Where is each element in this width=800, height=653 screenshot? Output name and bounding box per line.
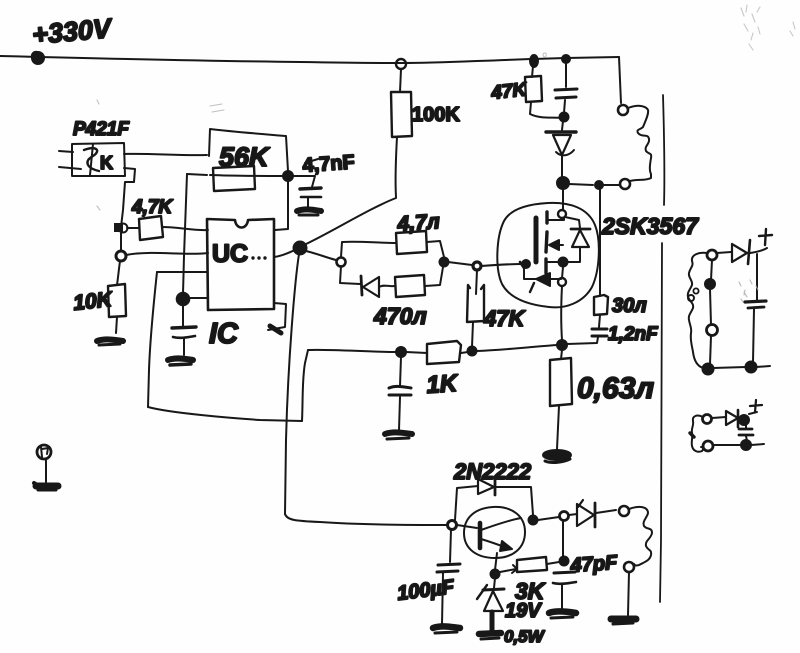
wire node 1K-left down to C5 <box>400 357 401 386</box>
diode D2 cathode bar <box>361 276 362 295</box>
wire node S to D5 <box>569 514 577 515</box>
svg-text:UC: UC <box>212 240 248 268</box>
diode D8 cathode bar <box>737 410 740 427</box>
wire D5 to T1 aux terminal <box>596 510 616 513</box>
svg-text:1K: 1K <box>426 370 460 399</box>
Q1 source lead <box>547 261 559 263</box>
transistor Q2 2N2222 circle <box>464 507 525 558</box>
node M ring junction <box>473 262 481 270</box>
wire node R to R13 <box>500 565 517 573</box>
Q2 emitter lead with arrow <box>481 539 512 551</box>
ground under C6 <box>549 611 576 618</box>
wire 56K big box outline <box>209 129 288 171</box>
wire C8 down to node U <box>753 309 754 362</box>
T2 terminal top circle <box>707 250 717 260</box>
Q1 drain lead <box>548 218 564 220</box>
T1 aux top terminal circle <box>619 506 629 516</box>
label 2N2222 <box>453 459 532 484</box>
T1 primary winding zigzag <box>628 106 651 181</box>
T1 primary top terminal circle <box>618 105 628 115</box>
node snubber dot <box>595 181 603 189</box>
diode D3 top bar <box>546 130 576 133</box>
label 47pF <box>569 552 619 577</box>
wire base node to Q2 base <box>457 525 477 528</box>
label 100uF <box>396 576 456 605</box>
wire node B to UC pin <box>126 253 208 255</box>
ground under C2 <box>168 358 193 365</box>
svg-text:47pF: 47pF <box>569 552 619 577</box>
label 1,2nF <box>608 324 659 345</box>
wire D4 to collector node <box>496 487 533 515</box>
wire T1 aux bottom to ground <box>628 572 629 615</box>
T3 terminal bottom circle <box>703 441 713 451</box>
wire R9 bottom hook to node P <box>530 102 562 118</box>
wire Q2 emitter down to node R <box>495 553 497 570</box>
label 0,5W <box>504 627 546 646</box>
diode D5 cathode bar <box>594 503 597 527</box>
wire R11 to ground <box>557 406 559 449</box>
label P421F <box>73 119 130 140</box>
wire node P to D3 <box>562 121 563 130</box>
T1 primary bottom terminal circle <box>620 179 630 189</box>
label 100K <box>412 104 460 126</box>
capacitor C4 1.2nF plates <box>592 329 607 336</box>
wire D6 to ground thick <box>490 612 495 631</box>
optocoupler internal LED scribble <box>84 144 113 175</box>
wire top rail corner down to T1 <box>619 57 621 103</box>
svg-text:100µF: 100µF <box>396 576 456 605</box>
ground under D6 <box>479 633 501 639</box>
wire node B down to R4 <box>117 261 120 285</box>
resistor R3 4.7K box <box>139 216 163 240</box>
wire node Q to R11 <box>561 350 562 359</box>
label 4,7 ohm <box>396 210 441 236</box>
node N junction dot <box>468 347 477 356</box>
diode D3 triangle down <box>553 135 574 155</box>
resistor R13 3K box <box>517 557 547 572</box>
wire T3 top to D8 <box>712 417 726 418</box>
label 10K <box>72 288 115 315</box>
diode D4 cathode bar <box>494 480 497 495</box>
wire tap circle down to bottom dot <box>710 336 711 364</box>
label 30 ohm <box>612 295 647 317</box>
svg-text:2N2222: 2N2222 <box>453 459 532 484</box>
svg-text:10K: 10K <box>72 288 115 315</box>
Q1 gate tie lower arrow <box>520 262 561 292</box>
wire node U stub right <box>756 366 770 367</box>
node P junction dot <box>560 113 569 122</box>
diode D7 triangle <box>732 244 747 262</box>
wire R3 to UC pin <box>163 227 208 230</box>
label 56K <box>219 142 271 172</box>
wire snubber vertical from node <box>599 189 601 296</box>
node U junction dot <box>746 362 757 373</box>
node T2 bottom dot <box>703 364 714 375</box>
resistor R10 30ohm box <box>594 295 608 315</box>
wire node J diagonal up to 100K <box>304 198 396 245</box>
node open circle on top rail <box>396 59 406 69</box>
svg-text:2SK3567: 2SK3567 <box>601 213 699 239</box>
wire bottom feedback run to vertical G <box>148 407 302 421</box>
Q1 source terminal circle <box>558 267 566 286</box>
resistor R12 1K box <box>427 341 461 364</box>
wire UC pin to corner F <box>157 271 207 273</box>
resistor R7 470ohm box <box>395 275 425 297</box>
wire node C to C1 <box>293 176 315 187</box>
svg-text:4,7nF: 4,7nF <box>302 151 356 177</box>
wire C2 to ground <box>183 339 185 355</box>
wire UC output pin to node J <box>274 250 295 257</box>
T3 winding hook scribble <box>690 416 703 452</box>
ground under R11 blob <box>543 450 571 462</box>
wire tap dot to tap circle <box>710 289 711 325</box>
wire collector node to node S <box>538 517 559 520</box>
node base open circle <box>448 521 457 530</box>
wire 100K bottom lead <box>396 137 397 197</box>
wire drain terminal up to drain node <box>562 189 564 210</box>
Q2 base bar <box>478 523 483 548</box>
capacitor C3 plates <box>555 89 577 98</box>
Q1 body arrow <box>549 240 563 250</box>
wire base node up to D4 <box>455 486 478 520</box>
node gate junction dot <box>522 260 530 268</box>
capacitor C7 100uF plates <box>437 564 460 572</box>
wire R10 to C4 <box>599 315 600 327</box>
capacitor C5 plates <box>389 386 411 395</box>
capacitor C8 plates <box>745 301 766 308</box>
Q1 body diode branch top <box>565 217 580 228</box>
optocoupler U2 P421F box <box>72 143 125 176</box>
label 3K <box>515 578 546 604</box>
ground under C7 <box>433 626 460 633</box>
wire R12 to node N <box>461 352 468 353</box>
Q1 gate bar <box>534 218 539 262</box>
Q2 collector lead <box>481 518 521 530</box>
wire R8 down to node N <box>472 322 473 347</box>
zener D6 triangle <box>484 591 503 611</box>
wire drain node to winding node <box>569 184 593 185</box>
wire node C down to UC top pin <box>275 181 288 230</box>
wire D7 to C8 <box>750 248 767 300</box>
node source dot <box>559 258 568 267</box>
label 470 ohm <box>373 303 427 329</box>
separator line lower segment <box>660 243 662 602</box>
wire T2 top circle to tap dot <box>711 260 712 280</box>
svg-text:56K: 56K <box>219 142 271 172</box>
svg-text:0,63л: 0,63л <box>577 372 654 405</box>
wire rail to R9 <box>532 66 533 77</box>
svg-text:0,5W: 0,5W <box>504 627 546 646</box>
wire node R down to D6 <box>494 578 495 588</box>
transistor Q1 2SK3567 circle <box>497 203 599 307</box>
diode D7 cathode bar <box>748 240 750 264</box>
zener D6 bar <box>477 585 504 599</box>
label 4,7nF <box>302 151 356 177</box>
diode D8 triangle <box>726 411 738 425</box>
ground under T1 aux <box>611 619 636 624</box>
separator line upper segment <box>663 95 664 205</box>
capacitor C2 plates <box>172 327 196 338</box>
svg-text:47K: 47K <box>483 306 526 331</box>
node R emitter dot <box>491 570 500 579</box>
wire node M to gate node <box>481 264 521 266</box>
wire R4 to ground <box>116 317 117 333</box>
wire C6 to ground <box>561 585 563 609</box>
wire C4 down to node Q <box>567 337 598 344</box>
diode body cathode bar <box>571 228 590 231</box>
wire rail to C3 <box>565 63 567 87</box>
label IC <box>209 318 239 350</box>
diode D4 triangle <box>478 479 494 494</box>
label 2SK3567 <box>601 213 699 239</box>
wire drive loop bottom run to base node <box>285 514 447 525</box>
node C9 bottom dot <box>741 440 751 450</box>
resistor R8 47K box <box>467 285 484 322</box>
capacitor C9 plates <box>739 429 753 435</box>
svg-text:470л: 470л <box>373 303 427 329</box>
resistor R4 10K box <box>108 284 126 317</box>
svg-text:P421F: P421F <box>73 119 130 140</box>
svg-text:1,2nF: 1,2nF <box>608 324 659 345</box>
wire T2 bottom rail <box>713 367 746 368</box>
wire node K lower branch to D2 <box>340 266 360 284</box>
wire node K upper branch to R6 <box>341 242 395 257</box>
wire node A to R3 <box>127 227 139 229</box>
IC U1 UC box <box>207 219 274 310</box>
wire vertical D down to node E <box>183 174 187 294</box>
T2 secondary winding scribble <box>688 253 707 368</box>
node drain big dot <box>557 177 569 189</box>
T1 aux winding zigzag <box>629 507 652 566</box>
resistor R6 4.7ohm box <box>396 231 427 254</box>
wire opto left stub pin1 <box>59 151 73 152</box>
Q1 channel dashes <box>546 212 547 273</box>
diode body to source rail <box>567 247 580 262</box>
node K open circle <box>337 258 346 267</box>
wire R7 to node L <box>425 267 443 286</box>
T1 aux bottom terminal circle <box>624 562 634 572</box>
wire D3 to drain node <box>561 156 563 177</box>
wire vertical G up to corner H <box>302 350 308 421</box>
wire snubber dot to T1 pin <box>603 184 619 186</box>
chassis symbol circle <box>37 445 51 459</box>
wire node E down to C2 <box>182 304 184 326</box>
resistor R9 47K top box <box>525 76 542 102</box>
T3 terminal top circle <box>703 415 712 424</box>
node rail dot at C3 <box>562 55 570 63</box>
T2 chain tap circle <box>707 325 718 336</box>
capacitor C1 4.7nF plates <box>300 188 321 197</box>
wire corner F down left edge <box>148 272 157 407</box>
wire node S down to node T <box>562 521 564 556</box>
svg-text:+330V: +330V <box>31 13 114 50</box>
wire C5 to ground <box>399 397 400 430</box>
wire opto output to 56K box <box>124 154 207 155</box>
wire node J long drive loop down <box>285 254 299 514</box>
node 1K-left junction dot <box>396 347 406 357</box>
wire node L to node M <box>448 262 472 265</box>
chassis stem wire <box>45 459 47 482</box>
wire opto left stub pin2 <box>59 167 81 169</box>
wire node E to UC pin <box>188 297 207 299</box>
wire D2 to R7 <box>379 286 395 287</box>
T2 chain tap dot <box>705 279 715 289</box>
svg-text:100K: 100K <box>412 104 460 126</box>
node C junction dot at 56K right <box>283 171 293 181</box>
svg-text:4,7л: 4,7л <box>396 210 441 236</box>
wire source down to node Q <box>560 286 563 340</box>
wire opto bottom jog down to node A <box>121 168 135 227</box>
label 47K top <box>489 79 528 104</box>
wire corner H right to node 1K <box>308 350 397 352</box>
node J big junction dot <box>294 242 307 255</box>
wire R6 to node L <box>427 241 444 257</box>
node +330V junction blob <box>32 52 44 64</box>
svg-text:47K: 47K <box>489 79 528 104</box>
wire T3 bottom rail <box>713 444 764 445</box>
ground under 10K <box>97 339 123 345</box>
label + bottom secondary <box>749 400 762 414</box>
label 1K <box>426 370 460 399</box>
wire +330V top rail <box>0 56 619 63</box>
ground under C1 <box>297 209 321 215</box>
wire C7 to ground <box>442 573 443 624</box>
svg-text:K: K <box>100 153 113 173</box>
node D8 out dot <box>739 415 749 425</box>
label 47K gate <box>483 306 526 331</box>
resistor R5 100K box <box>391 92 412 137</box>
label UC... <box>212 240 267 268</box>
node S open circle <box>560 512 569 521</box>
label +330V <box>31 13 114 50</box>
node collector dot <box>529 516 538 525</box>
node L junction dot <box>440 258 449 267</box>
wire node N to node Q <box>477 345 557 351</box>
svg-text:30л: 30л <box>612 295 647 317</box>
svg-text:19V: 19V <box>505 600 542 622</box>
node E junction dot <box>177 293 190 306</box>
wire UC lower pin gnd hook <box>268 303 286 333</box>
ground under C5 <box>385 432 412 439</box>
wire 56K bottom rail <box>210 175 285 176</box>
label 0,63 ohm <box>577 372 654 405</box>
wire D8 dot to C9 <box>746 425 747 441</box>
svg-text:4,7K: 4,7K <box>131 197 173 218</box>
label 19V <box>505 600 542 622</box>
wire 56K rail stub to vertical D <box>187 174 207 175</box>
ground under chassis symbol <box>34 483 58 490</box>
diode D5 triangle <box>577 500 594 526</box>
wire 100K top lead <box>400 69 401 92</box>
wire node M down into R8 <box>476 270 477 294</box>
label 4,7K <box>131 197 173 218</box>
label + top secondary <box>759 229 772 245</box>
wire T2 top to D7 <box>717 252 731 253</box>
wire base node down to C7 <box>450 530 451 562</box>
node dot rail at R9 <box>530 55 538 67</box>
node Q junction dot <box>557 340 567 350</box>
svg-text:IC: IC <box>209 318 239 350</box>
resistor R11 0.63ohm box <box>550 358 572 406</box>
wire C1 to ground <box>307 198 309 210</box>
node T junction dot <box>560 557 569 566</box>
wire C3 to node P <box>564 100 565 113</box>
wire node to R12 <box>406 352 427 353</box>
wire node J to node K <box>306 251 336 260</box>
Q1 drain terminal circle <box>558 210 566 218</box>
resistor R2 56K box <box>213 166 255 191</box>
wire R13 to node T <box>547 562 559 564</box>
node B open circle junction <box>116 251 126 261</box>
diode D2 triangle <box>363 277 379 297</box>
capacitor C6 47pF plates <box>553 572 576 584</box>
node A junction square dot <box>114 223 128 233</box>
wire node A to node B <box>120 232 122 251</box>
diode body triangle <box>572 230 589 247</box>
pencil smudges top right <box>97 5 795 302</box>
